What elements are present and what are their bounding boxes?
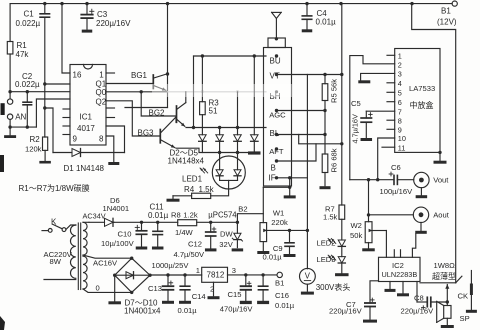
wire Q0 row bbox=[106, 91, 168, 93]
ground under DW bbox=[232, 248, 244, 251]
wire bridge minus to ground bbox=[114, 275, 116, 301]
wire Q0 branch down to BG2 base bbox=[141, 92, 175, 116]
svg-text:2: 2 bbox=[398, 61, 402, 70]
capacitor C3 electrolytic bbox=[86, 4, 88, 15]
svg-text:9: 9 bbox=[398, 126, 402, 135]
resistor R3 bbox=[201, 56, 203, 102]
wire right rail from top bbox=[341, 4, 343, 205]
wire C2 bottom up to IC1 pin bbox=[36, 99, 70, 127]
wire BG1 emitter column bbox=[167, 74, 169, 108]
wire W2 wiper to IC2 bbox=[372, 230, 386, 232]
svg-text:16: 16 bbox=[73, 70, 82, 79]
svg-text:1: 1 bbox=[99, 70, 104, 79]
LED LED2 bbox=[341, 219, 343, 240]
wire R8 to DW node bbox=[197, 221, 238, 223]
svg-text:超薄型: 超薄型 bbox=[432, 271, 456, 281]
wire LA7533 pin2 down to C6 node bbox=[350, 56, 395, 180]
wire BG1 collector to rail bbox=[167, 4, 169, 74]
svg-text:BL: BL bbox=[270, 129, 280, 138]
wire B row to AFT column bbox=[277, 144, 317, 161]
diode D2 bbox=[199, 135, 207, 142]
bridge rectifier D7-D10 bbox=[115, 258, 150, 292]
svg-text:C12: C12 bbox=[188, 240, 202, 249]
ground under C14 bbox=[179, 301, 191, 304]
wire R4 to ground bbox=[173, 195, 192, 197]
wire bridge plus to regulator bbox=[150, 274, 202, 276]
svg-text:220µ/16V: 220µ/16V bbox=[401, 306, 435, 315]
terminal B1 12V output bbox=[277, 272, 282, 277]
svg-text:W2: W2 bbox=[351, 221, 362, 230]
svg-text:R5 56k: R5 56k bbox=[330, 79, 339, 103]
svg-text:300V表头: 300V表头 bbox=[316, 282, 351, 292]
svg-text:0.01µ: 0.01µ bbox=[148, 211, 169, 220]
resistor R5 56k bbox=[324, 75, 326, 84]
transformer T primary bbox=[66, 225, 76, 229]
svg-text:51: 51 bbox=[209, 107, 218, 116]
wire node up to W1 bbox=[237, 214, 263, 223]
wire IC1 Q1 to BG1 base bbox=[106, 83, 152, 85]
wire 7812 pin2 to ground bbox=[213, 282, 215, 296]
svg-text:50k: 50k bbox=[350, 231, 362, 240]
wire IC1 right stubs bbox=[106, 107, 115, 109]
svg-text:LED1: LED1 bbox=[182, 175, 203, 184]
resistor R8 1.2k bbox=[178, 220, 197, 226]
svg-text:B1: B1 bbox=[441, 6, 451, 15]
svg-text:4.7µ/50V: 4.7µ/50V bbox=[174, 250, 205, 259]
svg-text:R6 68k: R6 68k bbox=[330, 148, 339, 172]
svg-text:1N4001x4: 1N4001x4 bbox=[124, 306, 161, 315]
svg-text:1: 1 bbox=[398, 52, 402, 61]
wire IF row to meter column bbox=[277, 177, 308, 179]
wire LA7533 pin stubs bbox=[387, 54, 395, 56]
svg-text:220µ/16V: 220µ/16V bbox=[96, 19, 131, 28]
wire stub at IC1 right to BG1 emitter node bbox=[125, 107, 168, 109]
wire IC2 top stubs bbox=[393, 250, 395, 257]
ground under C12 bbox=[205, 248, 217, 251]
wire AN lower to C2 bottom bbox=[10, 126, 36, 128]
ground under C11 bbox=[152, 247, 164, 250]
ground under speaker bbox=[441, 325, 454, 328]
diode D3 bbox=[219, 128, 221, 135]
svg-text:IC2: IC2 bbox=[392, 261, 404, 270]
wire LA7533 ground pin bbox=[438, 151, 441, 154]
tuner block box BU VT BH AGC BL AFT B IF bbox=[264, 48, 292, 187]
svg-text:Vout: Vout bbox=[433, 176, 449, 185]
resistor R6 68k bbox=[322, 154, 328, 173]
svg-text:µPC574: µPC574 bbox=[208, 211, 237, 220]
ground under C9 bbox=[284, 254, 296, 257]
svg-text:1/4W: 1/4W bbox=[175, 228, 194, 237]
transistor BG3 bbox=[159, 130, 161, 143]
svg-text:B: B bbox=[271, 164, 276, 173]
wire IC1 pin8 to ground bbox=[106, 136, 114, 162]
resistor R2 bbox=[43, 137, 48, 150]
potentiometer W2 50k bbox=[365, 222, 372, 243]
svg-text:1.2k: 1.2k bbox=[183, 210, 198, 219]
svg-text:C1: C1 bbox=[24, 9, 35, 18]
capacitor C12 electrolytic bbox=[210, 222, 212, 232]
svg-text:AGC: AGC bbox=[269, 111, 286, 120]
LED LED3 bbox=[338, 257, 345, 263]
ground under CK jack bbox=[466, 310, 477, 313]
ground under R2 bbox=[39, 161, 51, 164]
svg-text:AN: AN bbox=[15, 113, 26, 122]
diode D1 1N4148 bbox=[53, 152, 72, 154]
ground under AN bbox=[4, 135, 16, 138]
svg-text:220k: 220k bbox=[271, 218, 288, 227]
svg-text:C13: C13 bbox=[148, 284, 162, 293]
potentiometer W1 220k bbox=[260, 223, 267, 242]
svg-text:C5: C5 bbox=[351, 99, 361, 108]
svg-text:K: K bbox=[51, 217, 57, 226]
wire left column from rail to R1 bbox=[9, 4, 11, 42]
svg-text:32V: 32V bbox=[219, 240, 233, 249]
resistor R1 bbox=[7, 42, 13, 55]
svg-text:3: 3 bbox=[398, 70, 402, 79]
wire W2 bottom to ground bbox=[368, 243, 370, 249]
node top rail junction dots bbox=[43, 2, 46, 5]
diode D4 bbox=[237, 92, 239, 135]
svg-text:1.5k: 1.5k bbox=[323, 212, 338, 221]
capacitor C6 electrolytic bbox=[350, 179, 394, 181]
wire BU row from left bbox=[194, 55, 267, 57]
ground under C7 bbox=[363, 320, 377, 323]
wire AC34V tap bbox=[83, 221, 89, 223]
svg-text:中放盒: 中放盒 bbox=[410, 100, 434, 110]
svg-text:5: 5 bbox=[398, 89, 402, 98]
capacitor C8 electrolytic bbox=[417, 301, 427, 303]
svg-text:BU: BU bbox=[270, 56, 281, 65]
svg-text:ULN2283B: ULN2283B bbox=[382, 270, 418, 279]
ground under 7812 bbox=[208, 296, 220, 299]
svg-text:0: 0 bbox=[96, 283, 100, 292]
svg-text:VT: VT bbox=[270, 72, 280, 81]
svg-text:R2: R2 bbox=[30, 135, 41, 144]
ground under LED3 bbox=[335, 273, 349, 276]
wire AC16V tap to bridge top bbox=[83, 255, 132, 258]
meter V 300V bbox=[300, 268, 316, 284]
svg-text:0.022µ: 0.022µ bbox=[16, 19, 41, 28]
svg-text:120k: 120k bbox=[25, 145, 42, 154]
wire top +12V rail bbox=[10, 3, 452, 5]
diode D6 1N4001 bbox=[89, 221, 105, 223]
transformer T secondary windings bbox=[83, 222, 87, 255]
wire W1 bottom to ground bbox=[262, 242, 264, 251]
svg-text:C10: C10 bbox=[118, 229, 132, 238]
svg-text:7812: 7812 bbox=[207, 270, 225, 279]
resistor R4 bbox=[192, 193, 211, 198]
wire Aout row bbox=[369, 214, 414, 216]
op-amp IC1 4017 counter box bbox=[70, 65, 106, 146]
capacitor C16 bbox=[262, 275, 264, 286]
svg-text:R1～R7为1/8W碳膜: R1～R7为1/8W碳膜 bbox=[19, 183, 90, 193]
wire IC1 reset pin to D1 cathode bbox=[106, 126, 125, 153]
wire BG3 collector to BG2 base bbox=[175, 117, 177, 122]
ground under bridge bbox=[108, 301, 121, 304]
svg-text:R8: R8 bbox=[171, 210, 181, 219]
ground under C5 bbox=[361, 138, 373, 141]
wire BG2 collector up to Q0 row bbox=[185, 92, 187, 103]
svg-text:1.5k: 1.5k bbox=[199, 185, 215, 194]
svg-text:0.01µ: 0.01µ bbox=[275, 301, 295, 310]
capacitor C7 electrolytic bbox=[370, 281, 379, 303]
wire R5 to R6 bbox=[324, 101, 326, 155]
svg-text:(12V): (12V) bbox=[437, 17, 457, 26]
svg-text:LED2: LED2 bbox=[317, 239, 336, 248]
ground under C3 bbox=[82, 30, 93, 33]
wire LA7533 pin7 to C5 bbox=[366, 110, 394, 112]
svg-text:D1 1N4148: D1 1N4148 bbox=[64, 164, 105, 173]
wire 7812 output to B1 terminal bbox=[228, 274, 277, 276]
capacitor C14 bbox=[184, 275, 186, 286]
wire meter column from VT row bbox=[306, 75, 308, 269]
svg-text:0.01µ: 0.01µ bbox=[316, 18, 337, 27]
switch AN pushbutton bbox=[7, 99, 12, 104]
ground under C10 bbox=[136, 247, 148, 250]
wire BU row drop to diode row bbox=[193, 56, 195, 128]
svg-text:1W8Ω: 1W8Ω bbox=[434, 261, 456, 270]
svg-text:R4: R4 bbox=[184, 185, 195, 194]
wire branch to D1 bbox=[45, 108, 53, 153]
capacitor C11 bbox=[157, 222, 159, 231]
svg-text:1000µ/25V: 1000µ/25V bbox=[152, 261, 190, 270]
ground under meter bbox=[301, 292, 314, 295]
wire W2 column from C6 node bbox=[368, 180, 370, 222]
svg-text:470µ/16V: 470µ/16V bbox=[220, 305, 254, 314]
svg-text:8: 8 bbox=[99, 135, 104, 144]
wire IC2 pin to Aout ground bbox=[412, 234, 415, 257]
svg-text:4017: 4017 bbox=[77, 124, 95, 133]
svg-text:10µ/100V: 10µ/100V bbox=[101, 239, 135, 248]
svg-text:9: 9 bbox=[73, 135, 78, 144]
svg-text:1: 1 bbox=[196, 266, 200, 275]
ground under C13 bbox=[162, 301, 174, 304]
svg-text:LED3: LED3 bbox=[317, 255, 336, 264]
diode D5 bbox=[253, 56, 255, 135]
svg-text:CK: CK bbox=[458, 291, 469, 300]
svg-text:1N4148x4: 1N4148x4 bbox=[168, 157, 205, 166]
svg-text:8W: 8W bbox=[50, 257, 62, 266]
wire 0V tap to bridge bottom bbox=[83, 289, 132, 292]
capacitor C15 electrolytic bbox=[245, 275, 247, 286]
svg-text:Q0: Q0 bbox=[96, 88, 107, 97]
zener diode DW 32V bbox=[236, 222, 238, 233]
ground under R6 bbox=[320, 186, 331, 189]
svg-text:V: V bbox=[305, 272, 311, 281]
wire LED1 to R4 bbox=[211, 180, 229, 195]
svg-text:Aout: Aout bbox=[433, 210, 450, 219]
wire LA7533 pin10 to C6 node bbox=[378, 138, 395, 180]
LED LED1 dual indicator circle bbox=[212, 156, 245, 189]
svg-text:Q2: Q2 bbox=[96, 97, 107, 106]
svg-text:220µ/16V: 220µ/16V bbox=[329, 306, 363, 315]
svg-text:C16: C16 bbox=[275, 291, 289, 300]
wire faint Q0 row to tuner BH bbox=[168, 91, 267, 93]
wire R2 to ground bbox=[44, 150, 46, 160]
wire C1 column to IC1 pin bbox=[45, 83, 70, 85]
ground at LA7533 pin3 bbox=[358, 80, 370, 83]
resistor R7 1.5k bbox=[339, 205, 345, 219]
ground at diode row right end bbox=[248, 151, 261, 154]
wire IC1 Q2 to BG3 base bbox=[106, 101, 159, 136]
svg-text:47k: 47k bbox=[16, 50, 30, 59]
wire BG3 emitter to diode cathode row bbox=[176, 148, 254, 152]
svg-text:C3: C3 bbox=[97, 10, 108, 19]
wire R1 to switch bbox=[9, 54, 11, 99]
wire BL jog to rail bbox=[299, 135, 342, 144]
svg-text:Q1: Q1 bbox=[96, 79, 107, 88]
svg-text:AC16V: AC16V bbox=[93, 258, 118, 267]
svg-text:C6: C6 bbox=[391, 163, 401, 172]
jack CK bbox=[456, 276, 462, 283]
svg-text:8: 8 bbox=[398, 116, 402, 125]
wire switch to ground bbox=[9, 119, 11, 134]
IC LA7533 box bbox=[395, 49, 440, 153]
wire IF node to ground and W1 bbox=[289, 178, 291, 195]
svg-text:11: 11 bbox=[398, 143, 406, 152]
ground under W1 bbox=[257, 251, 269, 254]
capacitor C4 bbox=[306, 4, 308, 16]
wire BL row to R5R6 junction bbox=[277, 134, 326, 136]
switch K mains bbox=[42, 230, 48, 232]
wire VT row to rail bbox=[277, 74, 342, 76]
ground at R4 left bbox=[167, 199, 180, 202]
wire R6 to ground bbox=[324, 173, 326, 186]
capacitor C10 electrolytic bbox=[141, 222, 143, 231]
terminal Vout bbox=[414, 172, 429, 187]
capacitor C2 bbox=[26, 92, 28, 103]
wire scan fade band artifact bbox=[152, 84, 292, 97]
wire W1 wiper row bbox=[267, 229, 308, 231]
wire speaker to ground bbox=[446, 318, 448, 324]
svg-text:C14: C14 bbox=[192, 292, 206, 301]
transistor BG1 bbox=[152, 75, 154, 89]
wire B1 negative rail to CK jack bbox=[412, 4, 456, 283]
terminal Aout bbox=[413, 207, 428, 222]
capacitor C9 bbox=[289, 230, 291, 242]
svg-text:7: 7 bbox=[398, 107, 402, 116]
wire main 34V row bbox=[114, 221, 178, 223]
svg-text:B2: B2 bbox=[238, 204, 247, 213]
svg-text:C8: C8 bbox=[414, 293, 424, 302]
capacitor C5 electrolytic bbox=[365, 111, 367, 118]
node C1 column junctions bbox=[43, 82, 46, 85]
wire IC2 bottom pin grounds bbox=[389, 282, 391, 289]
wire W1 top link bbox=[263, 186, 289, 188]
ground under C15 bbox=[240, 301, 252, 304]
svg-text:4: 4 bbox=[398, 79, 402, 88]
wire BG2 emitter row to tuner bbox=[186, 127, 266, 129]
wire IC1 left stub pins bbox=[63, 108, 70, 110]
svg-text:3: 3 bbox=[232, 266, 236, 275]
wire IC1 pin16 to rail bbox=[62, 4, 70, 73]
ground under W2 bbox=[362, 248, 375, 251]
wire AGC row bbox=[277, 110, 326, 112]
svg-text:BG2: BG2 bbox=[149, 109, 166, 118]
node tuner pin dots bbox=[275, 54, 278, 57]
capacitor C1 bbox=[44, 4, 46, 14]
svg-text:10: 10 bbox=[398, 134, 406, 143]
svg-text:BG1: BG1 bbox=[131, 71, 148, 80]
wire IC1 pin1 stub bbox=[106, 72, 115, 74]
wire LA7533 pin3 to ground bbox=[361, 73, 395, 80]
wire IC2 to CK jack bbox=[420, 282, 456, 284]
transistor BG2 bbox=[176, 106, 178, 122]
svg-text:AC34V: AC34V bbox=[83, 211, 106, 220]
svg-text:W1: W1 bbox=[273, 209, 284, 218]
svg-text:1N4001: 1N4001 bbox=[103, 204, 130, 213]
terminal B1 battery positive bbox=[452, 1, 457, 6]
svg-text:R1: R1 bbox=[17, 41, 28, 50]
wire IC2 output pin to C8 bbox=[416, 282, 418, 303]
regulator U 7812 bbox=[202, 267, 228, 282]
ground under LA7533 bbox=[434, 161, 447, 164]
svg-text:IC1: IC1 bbox=[80, 113, 93, 122]
ground under IC1 pin8 bbox=[108, 162, 119, 165]
capacitor C13 electrolytic bbox=[167, 275, 169, 286]
transformer core bbox=[77, 223, 79, 290]
svg-text:B1: B1 bbox=[275, 279, 284, 288]
ground under IF node bbox=[284, 195, 296, 198]
svg-text:0.022µ: 0.022µ bbox=[15, 80, 40, 89]
wire LA7533 pin11 stub bbox=[382, 146, 395, 148]
IC IC2 ULN2283B box bbox=[379, 257, 421, 281]
antenna bbox=[272, 11, 282, 13]
svg-text:6: 6 bbox=[398, 98, 402, 107]
svg-text:0.01µ: 0.01µ bbox=[263, 253, 283, 262]
svg-text:IF: IF bbox=[269, 174, 276, 183]
wire meter to ground bbox=[306, 284, 308, 291]
wire scan edge marks bbox=[0, 155, 4, 172]
svg-text:0.01µ: 0.01µ bbox=[178, 306, 198, 315]
tuner head small top box bbox=[268, 38, 285, 48]
ground under C16 bbox=[257, 301, 269, 304]
svg-text:BG3: BG3 bbox=[138, 129, 155, 138]
svg-text:C15: C15 bbox=[228, 290, 242, 299]
ground under C4 bbox=[302, 29, 313, 32]
svg-text:SP: SP bbox=[460, 314, 470, 323]
svg-text:DW: DW bbox=[220, 229, 233, 238]
svg-text:100µ/16V: 100µ/16V bbox=[380, 187, 414, 196]
wire AN upper node to IC1 pin bbox=[10, 91, 70, 93]
svg-text:4.7µ/16V: 4.7µ/16V bbox=[350, 114, 359, 143]
svg-text:LA7533: LA7533 bbox=[409, 84, 435, 93]
